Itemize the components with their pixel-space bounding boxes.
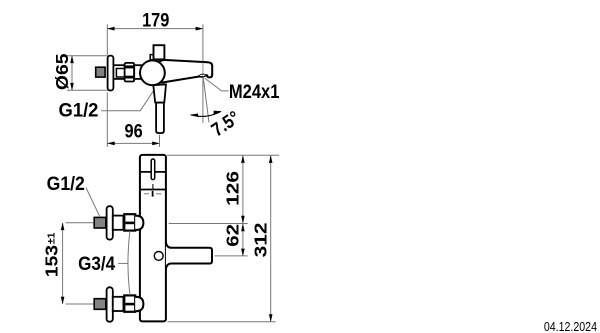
dimension 96 extension right [159,135,161,147]
dimension 153 bottom arrow [61,297,65,305]
shower outlet cone (side view) [153,84,166,102]
dimension 96 right arrow [152,142,160,146]
lower supply: nut mid band [125,303,134,306]
extension line right lower (angle vertical leg) [202,78,204,124]
angle 7.5 arc right arrow [214,111,222,115]
dimension 62 bottom arrow [241,249,245,257]
angle 7.5 arc left arrow [190,114,198,118]
handle lever slot (front view) [151,159,155,180]
svg-text:Ø65: Ø65 [52,53,72,90]
dimension 179 right arrow [196,27,204,31]
dimension 312 line [270,156,272,322]
label G1/2 (side view) leader [101,85,157,111]
upper supply: union nut [124,214,135,230]
lower supply: shaft [113,297,124,311]
dimension 96 left arrow [107,142,115,146]
lower supply: union nut [124,295,135,311]
extension line right through spout [202,63,204,75]
label G1/2 (front view) leader [86,188,100,217]
dimension 126/62 line [242,156,244,256]
angle 7.5 tilted leg [203,76,209,122]
svg-text:G1/2: G1/2 [59,99,99,120]
upper supply: wall anchor square [94,217,106,228]
lower supply: wall anchor square [94,299,106,310]
dimension 126 bottom arrow [241,216,245,224]
svg-text:96: 96 [125,121,143,142]
upper supply: nut mid band [125,222,134,225]
dimension 126 top arrow [241,155,245,163]
union nut chamfer band top [125,65,134,68]
lower supply: rounded cap [135,297,143,311]
mixer body circle (side view) [140,60,165,85]
index tick below slot [152,184,154,189]
svg-text:126: 126 [223,171,243,206]
wall anchor square (side view) [96,67,105,77]
spout axis extension line [215,255,248,257]
label G3/4 leader dash [118,262,128,264]
union nut chamfer band bottom [125,76,134,79]
extension line left (wall plane) [106,24,108,147]
dimension 62 top arrow [241,224,245,232]
upper supply: escutcheon flange [107,206,113,239]
dimension 153 top arrow [61,222,65,230]
aerator notch inner lens [200,74,206,76]
spout (side view) [157,60,213,83]
svg-text:312: 312 [251,222,271,257]
spout (front view) [166,242,212,269]
body bottom extension line [168,321,276,323]
dimension Ø65 top arrow [70,55,74,63]
svg-text:153: 153 [41,245,61,277]
svg-text:62: 62 [224,224,243,247]
angle 7.5 arc [191,111,221,116]
svg-text:G1/2: G1/2 [47,173,85,195]
svg-text:G3/4: G3/4 [78,253,115,274]
upper supply: shaft [113,216,124,230]
inlet tube to body (side view) [134,65,142,79]
dimension Ø65 extension lines [67,56,108,90]
dimension Ø65 line [71,56,73,90]
svg-text:±1: ±1 [45,232,57,244]
shower outlet stem (side view) [156,103,164,133]
eccentric union tube (side view) [113,65,124,79]
mixer body (front view) [140,155,166,322]
dimension 179 line [107,28,203,30]
centre cross marker [144,193,162,195]
handle lever knob (side view) [154,45,165,59]
wall escutcheon flange (side view) [108,56,114,91]
svg-text:179: 179 [142,9,169,30]
label G3/4 leader curve [128,231,130,295]
aerator notch eye (M24x1 outlet) [197,74,207,78]
dimension Ø65 bottom arrow [70,83,74,91]
dimension 179 left arrow [107,27,115,31]
eccentric union inner step [116,69,124,78]
union nut (side view) [125,63,135,82]
upper supply: rounded cap [135,216,143,230]
extension line right upper (spout outlet axis) [202,24,204,62]
lower supply: escutcheon flange [107,287,113,321]
body cap joint line [140,171,166,173]
dimension 153 line [62,223,64,304]
dimension 153 extension lines [66,223,94,304]
label M24x1 leader [205,78,229,91]
dimension 96 line [107,142,159,144]
svg-text:04.12.2024: 04.12.2024 [544,320,598,333]
body top extension line [167,154,279,156]
supply axis extension line [169,223,248,225]
lever step (side view) [150,55,154,60]
temperature screw circle [154,252,163,261]
svg-text:M24x1: M24x1 [229,81,280,102]
body lower joint line [140,189,166,191]
dimension 312 top arrow [269,155,273,163]
dimension 312 bottom arrow [269,314,273,322]
